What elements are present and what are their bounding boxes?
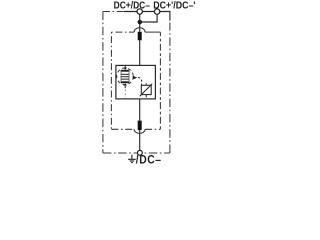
wire: arrester housing to lower disconnector [139,99,141,121]
disconnector contact, lower (black block) [138,121,142,131]
module boundary, right side [159,32,161,129]
module boundary, bottom-left segment [111,128,134,130]
monitoring circle (dashed) around spark gap [117,68,134,85]
disconnector contact, upper (black block) [138,32,142,41]
wire: lower disconnector to earth terminal [139,130,141,153]
node label /DC- [136,154,162,167]
plug contact arc, top [134,28,145,32]
wire: feed-through link between top terminals [124,11,160,13]
enclosure boundary, right side [169,23,171,154]
module boundary, top-left segment [111,31,134,33]
module boundary, left side [110,32,112,129]
varistor R1: body [141,85,151,94]
terminal DC+/DC- [137,9,142,14]
wire: right terminal down and left to junction [140,12,157,23]
spark gap F1: electrode stack [121,70,129,83]
spark gap F1: dashed lead to housing bottom [124,90,126,99]
svg-text:DC+/DC–: DC+/DC– [114,0,150,11]
module boundary, top-right segment [145,31,160,33]
spark gap F1: top lead [124,65,126,68]
node label DC+'/DC-' [153,0,195,12]
module boundary, bottom-right segment [145,128,160,130]
wire: enclosure top-right corner stub [160,12,170,21]
wire: left terminal down through junction to upper disconnector [139,12,141,32]
terminal DC+'/DC-' [154,9,159,14]
varistor R1: bottom lead [145,95,147,98]
terminal earth/DC- [138,150,143,155]
spark gap F1: upper electrode [123,68,127,70]
spark gap F1: lower electrode [123,83,127,85]
junction node [138,20,143,25]
varistor R1: diagonal stroke [140,84,153,97]
disconnector arrow [133,76,137,80]
plug contact arc, bottom [134,129,145,133]
arrester housing box [116,65,155,99]
node label DC+/DC- [114,0,150,11]
enclosure boundary, top-left segment [103,11,124,13]
enclosure boundary, bottom side [103,152,170,154]
enclosure boundary, left side [102,12,104,154]
varistor R1: top lead [145,83,147,85]
spark gap F1: bottom lead [124,86,126,88]
svg-text:/DC–: /DC– [136,154,162,164]
wire: upper disconnector to arrester housing [139,40,141,65]
ground (earth symbol) [128,155,136,163]
disconnector linkage (dashed) to varistor [138,77,142,85]
